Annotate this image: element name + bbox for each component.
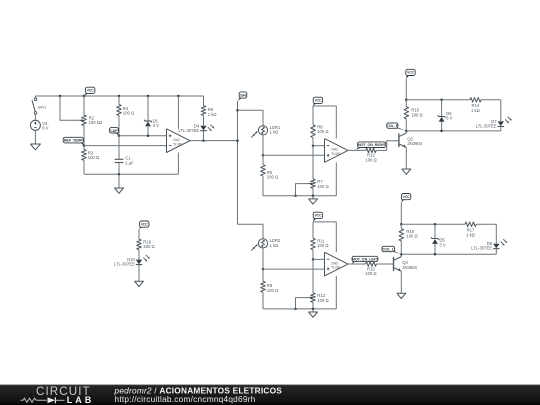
zener diode D5	[431, 224, 446, 254]
svg-text:1 kΩ: 1 kΩ	[270, 130, 279, 135]
junction Q2 collector node	[405, 130, 408, 133]
wire VCC to OA3 V+	[313, 222, 336, 252]
resistor R6	[201, 96, 216, 126]
junction zener D6 bottom	[440, 130, 443, 133]
photoresistor LDR1	[251, 125, 281, 138]
ground Q4 emitter	[397, 293, 406, 298]
resistor R15	[365, 262, 393, 276]
svg-text:VCC: VCC	[314, 214, 322, 218]
svg-text:VCC: VCC	[403, 195, 411, 199]
junction zener D6 top	[440, 99, 443, 102]
junction net-A OA1 out	[236, 139, 239, 142]
svg-text:COL_L: COL_L	[383, 247, 395, 251]
wire switch to V3	[34, 114, 36, 120]
wire net-A vertical	[237, 101, 239, 224]
svg-text:100 Ω: 100 Ω	[317, 243, 328, 248]
svg-text:VCC: VCC	[314, 99, 322, 103]
svg-text:1 μF: 1 μF	[125, 160, 134, 165]
svg-text:1 kΩ: 1 kΩ	[471, 108, 480, 113]
wire OA2 V- pin	[335, 162, 337, 195]
svg-text:3 V: 3 V	[153, 123, 159, 128]
svg-text:TL081: TL081	[331, 266, 341, 270]
junction wiper/gnd rail	[294, 195, 297, 198]
net label REF_TEMP	[63, 137, 84, 145]
wire load1 bottom rail	[406, 130, 501, 132]
svg-text:COL_R: COL_R	[386, 124, 398, 128]
resistor R19	[137, 239, 155, 259]
wire OA1 V- pin	[177, 153, 179, 175]
resistor R5	[261, 155, 278, 196]
potentiometer R7	[308, 179, 328, 196]
capacitor C1	[115, 136, 135, 175]
switch SW1	[32, 96, 47, 114]
svg-text:100 Ω: 100 Ω	[365, 271, 376, 276]
junction CAP node	[118, 134, 121, 137]
net label COL_R	[386, 123, 406, 131]
junction top rail R4	[118, 95, 121, 98]
svg-text:100 Ω: 100 Ω	[317, 184, 328, 189]
junction D1 anode on CAP wire	[147, 134, 150, 137]
junction top rail x60	[59, 95, 62, 98]
resistor R16	[399, 224, 418, 254]
svg-text:TL081: TL081	[173, 142, 183, 146]
ground below V3	[30, 144, 40, 150]
resistor R8	[311, 106, 329, 146]
junction top rail OA1 V+	[177, 95, 180, 98]
ground Q2 emitter	[402, 169, 411, 174]
wire OA1 V+ pin	[177, 96, 179, 129]
junction OA1 output LED	[202, 139, 205, 142]
wire net-A to LDR2	[238, 224, 264, 239]
op-amp OA3	[325, 252, 349, 276]
svg-text:100 Ω: 100 Ω	[411, 112, 422, 117]
svg-text:100 Ω: 100 Ω	[406, 234, 417, 239]
logo resistor-diode squiggle	[21, 398, 47, 402]
svg-text:MOT_ON_LEFT: MOT_ON_LEFT	[352, 257, 379, 261]
wire OA1 output	[190, 140, 238, 142]
svg-text:LTL-307EE: LTL-307EE	[178, 128, 199, 133]
wire VCC down ch2	[400, 202, 402, 224]
potentiometer R13	[308, 293, 328, 309]
resistor R11	[311, 222, 329, 260]
svg-text:LTL-307EE: LTL-307EE	[471, 246, 492, 251]
svg-text:OA1: OA1	[173, 138, 180, 142]
svg-text:3 V: 3 V	[439, 242, 445, 247]
junction LDR1/R5 node	[262, 154, 265, 157]
junction Q4 collector node	[400, 253, 403, 256]
wire CAP node to op-amp	[119, 135, 167, 137]
junction net-A LDR1 branch	[236, 109, 239, 112]
svg-text:VCC: VCC	[87, 89, 95, 93]
wire OA3 output	[348, 263, 366, 265]
wire ch1 ground rail	[263, 195, 336, 197]
photoresistor LDR2	[251, 238, 281, 251]
junction OA3 - node	[312, 258, 315, 261]
wire R12 to Q2 base	[387, 141, 399, 151]
resistor R17	[465, 222, 496, 237]
svg-text:MOT_ON_RIGHT: MOT_ON_RIGHT	[358, 143, 387, 147]
svg-text:SAI: SAI	[240, 93, 246, 97]
junction zener D5 bottom	[434, 253, 437, 256]
ground ch1	[309, 196, 318, 204]
svg-text:CAP: CAP	[110, 129, 118, 133]
svg-text:VCC: VCC	[407, 71, 415, 75]
junction load2 top	[400, 223, 403, 226]
resistor R9	[261, 269, 278, 309]
wire LDR2 to node	[262, 248, 264, 269]
power flag VCC (ch2 mid)	[313, 212, 323, 222]
junction top rail D1	[147, 95, 150, 98]
wire to OA3 + input	[263, 268, 325, 270]
op-amp OA1	[167, 129, 191, 153]
wire VCC to R19	[138, 229, 140, 239]
svg-text:6 V: 6 V	[42, 126, 48, 131]
junction zener D5 top	[434, 223, 437, 226]
wire R17 to D8	[495, 224, 497, 243]
power flag VCC (ch2 load)	[401, 194, 411, 203]
junction ground rail C1	[118, 173, 121, 176]
transistor Q4	[394, 257, 418, 272]
wire to LDR1	[238, 110, 264, 125]
svg-text:100 Ω: 100 Ω	[267, 175, 278, 180]
ground D10	[135, 281, 144, 286]
wire ch2 ground rail	[263, 308, 336, 310]
svg-text:2N3904: 2N3904	[407, 141, 422, 146]
footer bar	[0, 385, 540, 405]
wire R13 wiper	[296, 298, 309, 309]
wire R7 wiper	[296, 184, 309, 196]
wire Q2 collector	[405, 131, 407, 133]
net label MOT_ON_RIGHT	[356, 142, 386, 150]
wire V3 to ground	[34, 130, 36, 144]
svg-text:LAB: LAB	[67, 395, 95, 405]
op-amp OA2	[325, 139, 349, 163]
svg-text:100 Ω: 100 Ω	[317, 298, 328, 303]
wire top VCC rail	[35, 95, 203, 97]
wire load2 bottom rail	[401, 253, 496, 255]
resistor R14	[470, 98, 501, 113]
junction top rail R2	[83, 95, 86, 98]
wire load2 top rail	[401, 223, 465, 225]
svg-text:100 kΩ: 100 kΩ	[89, 120, 102, 125]
power flag VCC (left)	[84, 87, 95, 96]
zener diode D1	[144, 96, 159, 136]
svg-text:REF_TEMP: REF_TEMP	[64, 139, 84, 143]
LED D4	[178, 123, 214, 140]
svg-text:1 kΩ: 1 kΩ	[466, 232, 475, 237]
ground ch2	[309, 309, 318, 317]
junction load1 top	[405, 99, 408, 102]
wire Q4 emitter	[400, 271, 402, 293]
potentiometer R2	[79, 96, 102, 146]
resistor R4	[117, 96, 134, 136]
svg-text:LTL-307EE: LTL-307EE	[476, 123, 497, 128]
net label CAP	[109, 128, 119, 136]
wire LDR1 to node	[262, 135, 264, 155]
wire R14 to D7	[500, 100, 502, 121]
svg-text:SW1: SW1	[38, 104, 47, 109]
junction OA2 - node	[312, 144, 315, 147]
svg-text:100 Ω: 100 Ω	[123, 111, 134, 116]
junction ch2 gnd	[312, 308, 315, 311]
zener diode D6	[438, 100, 453, 131]
junction wiper2/gnd rail	[294, 308, 297, 311]
svg-text:3 V: 3 V	[446, 116, 452, 121]
junction LDR2/R9 node	[262, 268, 265, 271]
svg-text:100 Ω: 100 Ω	[317, 129, 328, 134]
net label SAI	[238, 92, 247, 101]
wire R11 to R13	[312, 259, 314, 293]
wire REF_TEMP to op-amp	[84, 145, 167, 147]
LED D7	[476, 117, 512, 131]
transistor Q2	[399, 133, 423, 148]
LED D10	[114, 255, 150, 281]
wire to OA2 - input	[313, 145, 325, 147]
power flag VCC (ch1 mid)	[313, 97, 323, 106]
svg-text:330 Ω: 330 Ω	[143, 244, 154, 249]
wire VCC down	[405, 79, 407, 100]
svg-text:100 Ω: 100 Ω	[88, 155, 99, 160]
wire R2 wiper feed	[60, 96, 81, 120]
LED D8	[471, 239, 507, 254]
svg-text:TL081: TL081	[331, 152, 341, 156]
junction ch1 gnd	[312, 195, 315, 198]
net label COL_L	[382, 246, 401, 254]
power flag VCC (bottom left)	[139, 221, 149, 229]
svg-text:2N3904: 2N3904	[402, 265, 417, 270]
wire OA2 output	[348, 149, 366, 151]
voltage source V3	[30, 120, 48, 130]
ground below C1	[115, 174, 124, 193]
svg-text:OA3: OA3	[331, 261, 338, 265]
svg-text:LTL-307EE: LTL-307EE	[114, 262, 135, 267]
svg-text:1 kΩ: 1 kΩ	[270, 243, 279, 248]
svg-text:OA2: OA2	[331, 148, 338, 152]
svg-text:http://circuitlab.com/cncmnq4q: http://circuitlab.com/cncmnq4qd69rh	[115, 394, 256, 404]
svg-text:100 Ω: 100 Ω	[365, 157, 376, 162]
wire to OA2 + input	[263, 154, 325, 156]
svg-text:1 kΩ: 1 kΩ	[208, 112, 217, 117]
net label MOT_ON_LEFT	[352, 256, 379, 264]
wire Q4 collector	[400, 254, 402, 256]
svg-text:100 Ω: 100 Ω	[267, 288, 278, 293]
power flag VCC (top right)	[406, 69, 415, 79]
resistor R3	[82, 146, 99, 175]
svg-text:VCC: VCC	[141, 222, 149, 226]
wire load1 top rail	[406, 99, 470, 101]
wire Q2 emitter	[405, 147, 407, 169]
resistor R10	[404, 100, 423, 131]
resistor R12	[365, 148, 386, 162]
wire left ground rail	[84, 173, 178, 175]
junction REF_TEMP node	[83, 144, 86, 147]
wire OA3 V- pin	[335, 276, 337, 309]
wire R8 to R7	[312, 146, 314, 179]
wire to OA3 - input	[313, 258, 325, 260]
wire VCC to OA2 V+	[313, 106, 336, 139]
